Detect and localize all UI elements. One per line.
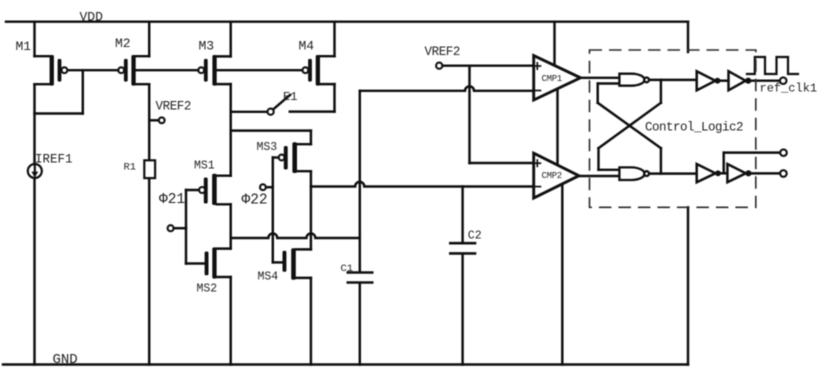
svg-text:M2: M2 <box>115 36 131 51</box>
svg-text:C2: C2 <box>468 230 482 243</box>
svg-text:M3: M3 <box>199 39 215 54</box>
svg-text:C1: C1 <box>341 263 354 275</box>
svg-text:E1: E1 <box>283 90 297 104</box>
svg-text:IREF1: IREF1 <box>35 153 73 167</box>
svg-text:VREF2: VREF2 <box>425 45 461 59</box>
svg-text:CMP1: CMP1 <box>542 74 562 84</box>
svg-text:ref_clk1: ref_clk1 <box>760 82 818 96</box>
svg-text:MS3: MS3 <box>257 141 278 154</box>
svg-text:VREF2: VREF2 <box>156 100 192 114</box>
svg-text:M1: M1 <box>16 39 32 54</box>
svg-text:CMP2: CMP2 <box>542 171 562 181</box>
svg-text:VDD: VDD <box>80 10 104 25</box>
svg-text:GND: GND <box>53 352 78 368</box>
svg-text:MS1: MS1 <box>194 160 215 173</box>
svg-text:Φ22: Φ22 <box>242 193 268 209</box>
svg-text:Control_Logic2: Control_Logic2 <box>645 121 743 135</box>
svg-text:M4: M4 <box>299 39 315 54</box>
svg-text:R1: R1 <box>124 162 137 174</box>
svg-text:MS4: MS4 <box>258 271 279 284</box>
svg-text:MS2: MS2 <box>197 283 218 296</box>
svg-text:Φ21: Φ21 <box>159 192 185 208</box>
